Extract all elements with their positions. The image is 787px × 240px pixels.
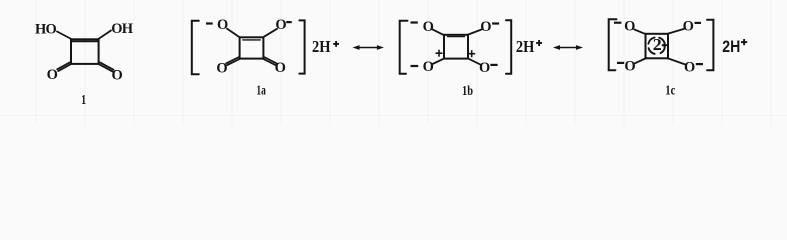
- resonance arrow between 1a and 1b: [356, 47, 381, 49]
- svg-text:1c: 1c: [665, 83, 675, 98]
- minus charge bottom-left 1b: [411, 65, 419, 67]
- C=O double bond bottom-right 1a: [263, 59, 276, 65]
- superscript plus of 2H+ 1b: [536, 40, 542, 46]
- bond C-O bottom-left 1b: [433, 58, 445, 64]
- bond C-OH top-left 1: [57, 32, 71, 40]
- svg-text:O: O: [217, 17, 228, 33]
- bond C-O top-right 1a: [263, 29, 277, 37]
- minus charge bottom-left 1c: [617, 62, 624, 64]
- delocalization dashed circle 1c: [648, 38, 664, 54]
- minus charge superscript bottom-right 1b: [490, 64, 497, 66]
- svg-text:2: 2: [653, 35, 662, 54]
- C=C double bond inner line 1b: [448, 36, 465, 38]
- C=C double bond (thick top edge) 1: [72, 40, 99, 42]
- bond C-O top-left 1b: [432, 29, 444, 35]
- minus charge superscript top-right 1c: [695, 22, 702, 24]
- right bracket 1c: [707, 20, 713, 71]
- plus of ring charge 2+ 1c: [662, 42, 668, 48]
- bond C-O bottom-left 1c: [635, 58, 647, 63]
- svg-text:O: O: [684, 60, 695, 76]
- svg-text:2H: 2H: [722, 37, 740, 56]
- svg-text:O: O: [624, 59, 635, 75]
- svg-text:O: O: [112, 68, 123, 84]
- superscript plus of 2H+ 1c: [741, 39, 747, 45]
- left bracket 1a: [192, 21, 199, 74]
- svg-text:O: O: [480, 19, 491, 35]
- svg-text:2H: 2H: [516, 37, 535, 56]
- svg-text:O: O: [275, 17, 286, 33]
- left bracket 1b: [400, 21, 408, 74]
- plus charge left carbon 1b: [436, 50, 443, 57]
- right bracket 1a: [299, 20, 304, 73]
- svg-text:O: O: [423, 19, 434, 35]
- svg-text:O: O: [624, 18, 635, 34]
- plus charge right carbon 1b: [468, 50, 475, 57]
- svg-text:HO: HO: [35, 22, 56, 38]
- C=O double bond bottom-left 1: [58, 64, 70, 71]
- bond C-OH top-right 1: [98, 31, 111, 40]
- minus charge top-left 1a: [206, 22, 213, 24]
- minus charge superscript top-right 1b: [492, 22, 499, 24]
- bond C-O bottom-right 1c: [668, 59, 685, 65]
- superscript plus of 2H+ 1a: [333, 41, 339, 47]
- ring C4 of squaric acid 1: [71, 39, 99, 64]
- C=C double bond inner line 1a: [243, 39, 260, 41]
- left bracket 1c: [609, 19, 617, 70]
- svg-text:2H: 2H: [312, 37, 331, 56]
- C=O double bond bottom-left 1a: [227, 59, 240, 65]
- minus charge top-left 1c: [614, 22, 621, 24]
- bond C-O bottom-right 1b: [468, 58, 480, 64]
- svg-text:O: O: [216, 61, 227, 77]
- minus charge top-left 1b: [411, 21, 418, 23]
- svg-text:1: 1: [81, 92, 86, 107]
- C=O double bond bottom-right 1: [99, 64, 113, 71]
- bond C-O top-right 1c: [668, 29, 684, 34]
- svg-text:OH: OH: [111, 21, 133, 37]
- minus charge superscript top-right 1a: [286, 21, 292, 23]
- svg-text:O: O: [47, 67, 58, 83]
- svg-text:1b: 1b: [462, 83, 473, 98]
- ring C4 of 1c: [646, 34, 669, 59]
- ring C4 of 1b: [444, 35, 468, 59]
- svg-text:O: O: [479, 60, 490, 76]
- bond C-O top-right 1b: [468, 30, 482, 35]
- bond C-O top-left 1a: [227, 29, 240, 38]
- svg-text:O: O: [683, 18, 694, 34]
- resonance arrow between 1b and 1c: [557, 47, 580, 49]
- svg-text:O: O: [423, 59, 434, 75]
- bond C-O top-left 1c: [634, 29, 646, 34]
- minus charge superscript bottom-right 1c: [696, 63, 703, 65]
- right bracket 1b: [506, 20, 511, 74]
- ring C4 of 1a: [240, 37, 264, 58]
- svg-text:O: O: [275, 60, 286, 76]
- svg-text:1a: 1a: [256, 83, 266, 98]
